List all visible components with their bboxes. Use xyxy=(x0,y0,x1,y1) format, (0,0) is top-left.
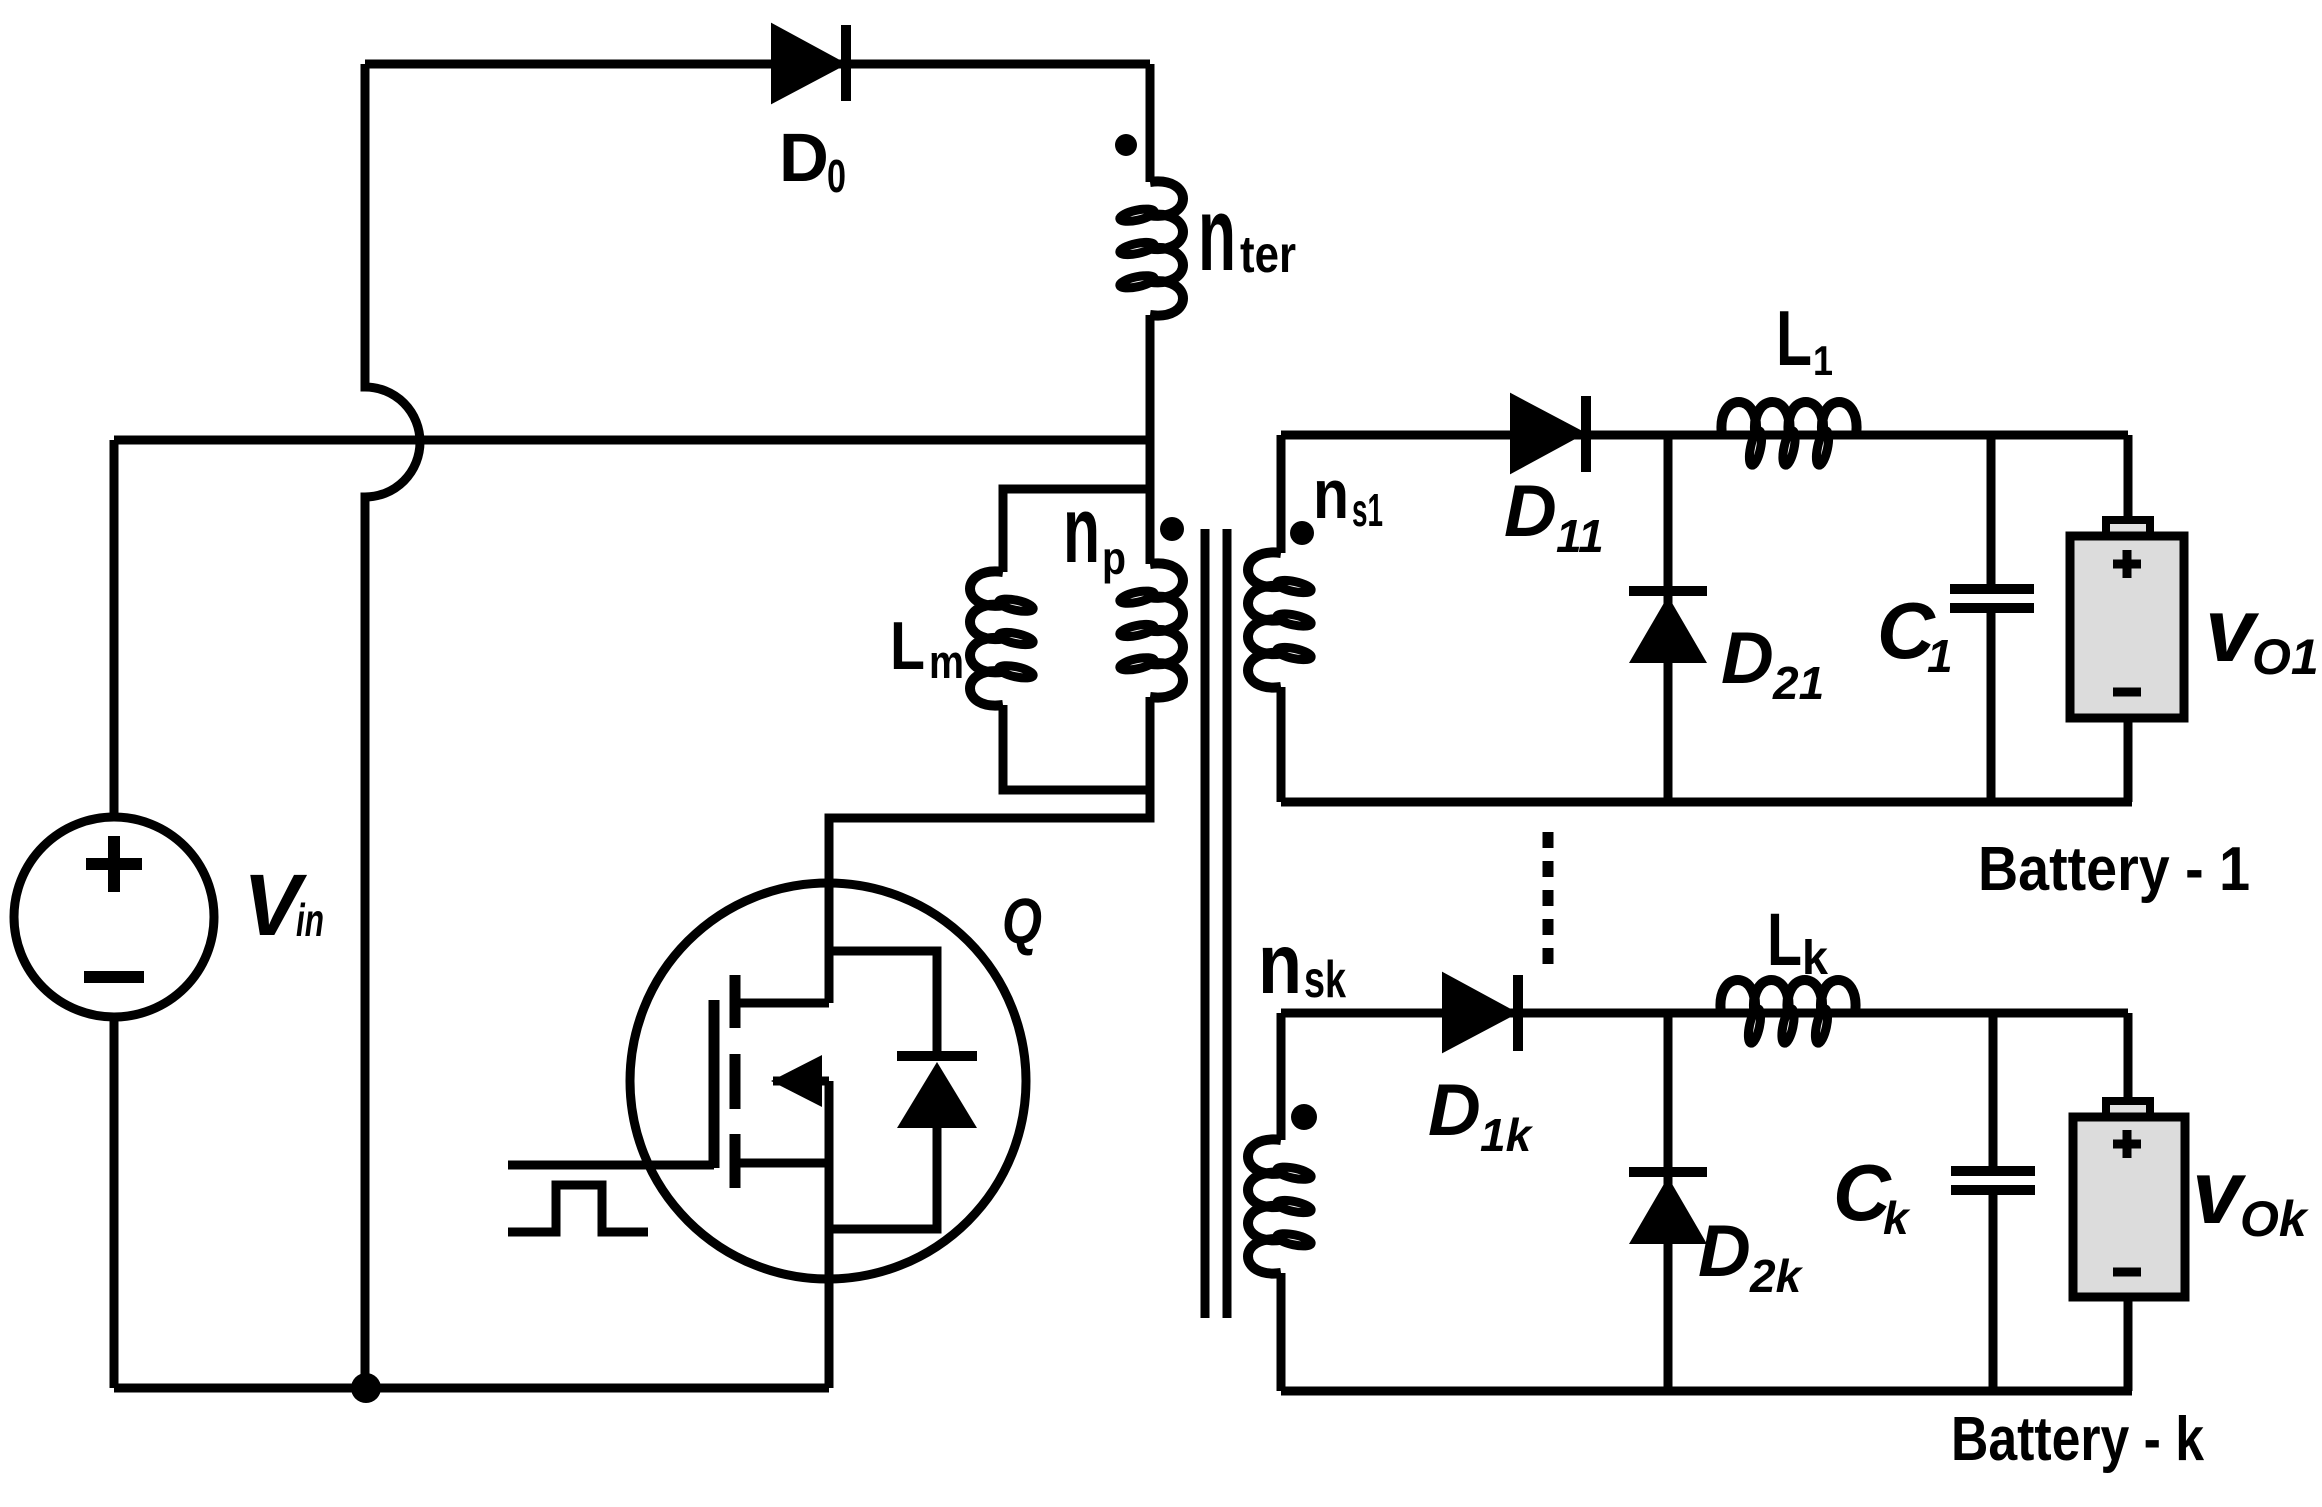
svg-text:L: L xyxy=(1776,294,1812,382)
diode D11 xyxy=(1512,396,1582,471)
diode D2k triangle xyxy=(1629,1177,1707,1244)
svg-text:ter: ter xyxy=(1240,226,1296,284)
battery 1 minus xyxy=(2113,688,2141,697)
battery k terminal nub xyxy=(2106,1101,2150,1119)
svg-text:Battery - 1: Battery - 1 xyxy=(1978,835,2250,904)
svg-text:L: L xyxy=(890,608,925,684)
wire left vertical with hop over main wire xyxy=(365,64,420,1388)
diode D2k cathode bar xyxy=(1629,1167,1707,1177)
diode D2k branch wire xyxy=(1664,1013,1673,1391)
svg-text:sk: sk xyxy=(1304,951,1346,1009)
svg-text:0: 0 xyxy=(827,150,846,202)
battery k body xyxy=(2073,1117,2185,1297)
wire L_m branch xyxy=(1003,489,1150,790)
svg-text:Battery - k: Battery - k xyxy=(1951,1405,2204,1474)
junction dot at bottom rail xyxy=(351,1373,381,1403)
diode D1k xyxy=(1444,975,1514,1050)
diode D21 triangle xyxy=(1629,596,1707,663)
secondary k: top rail xyxy=(1281,1009,2128,1018)
inductor L1 xyxy=(1721,402,1856,435)
svg-text:k: k xyxy=(1802,932,1828,985)
battery 1 body xyxy=(2070,536,2184,718)
wire: top loop from Vin+ to tertiary xyxy=(365,60,1150,69)
inductor L_m xyxy=(970,571,1003,705)
svg-text:D: D xyxy=(1721,618,1774,699)
svg-text:m: m xyxy=(929,635,964,688)
MOSFET source contact xyxy=(734,1159,829,1168)
svg-text:s1: s1 xyxy=(1352,484,1383,536)
svg-text:1: 1 xyxy=(1813,337,1833,384)
secondary 1: top rail xyxy=(1281,431,2128,440)
body diode triangle xyxy=(897,1062,977,1128)
wire primary vertical (tertiary + primary windings) xyxy=(829,64,1150,1003)
diode D21 cathode bar xyxy=(1629,586,1707,596)
MOSFET source/body vertical xyxy=(825,1081,834,1388)
secondary k: left rail xyxy=(1277,1013,1286,1391)
svg-text:n: n xyxy=(1258,917,1302,1012)
winding n_ter xyxy=(1150,181,1183,315)
svg-text:L: L xyxy=(1767,898,1802,981)
body diode branch wires xyxy=(829,951,937,1229)
Vin minus sign xyxy=(84,971,144,983)
svg-text:D: D xyxy=(1428,1070,1481,1151)
transformer core xyxy=(1205,529,1227,1318)
dot n_ter polarity xyxy=(1115,134,1137,156)
Vin plus sign xyxy=(86,836,142,892)
battery k wires xyxy=(2124,1013,2133,1391)
MOSFET Q circle xyxy=(630,883,1026,1279)
inductor Lk xyxy=(1720,980,1855,1013)
battery 1 wires xyxy=(2124,435,2133,802)
svg-text:1k: 1k xyxy=(1480,1109,1534,1161)
svg-text:n: n xyxy=(1198,176,1236,293)
svg-text:D: D xyxy=(779,119,829,196)
diode D0 xyxy=(773,26,843,101)
MOSFET body contact with arrow xyxy=(773,1077,829,1086)
battery k minus xyxy=(2113,1268,2141,1277)
source Vin circle xyxy=(14,817,214,1017)
MOSFET gate bar xyxy=(709,1000,720,1168)
svg-text:k: k xyxy=(1883,1192,1911,1244)
wire left rail / Vin branch xyxy=(110,440,119,1388)
dot n_p polarity xyxy=(1160,517,1184,541)
secondary k: bottom rail xyxy=(1281,1387,2132,1396)
capacitor Ck plates xyxy=(1951,1171,2035,1190)
dashed separator between outputs xyxy=(1543,832,1554,970)
svg-text:D: D xyxy=(1698,1211,1751,1292)
svg-text:11: 11 xyxy=(1556,510,1604,562)
winding n_sk xyxy=(1248,1139,1281,1273)
MOSFET channel dashes xyxy=(730,975,741,1188)
svg-text:Q: Q xyxy=(1002,885,1042,957)
MOSFET drain contact xyxy=(734,999,829,1008)
battery 1 plus xyxy=(2113,550,2141,578)
secondary 1: bottom rail xyxy=(1281,798,2132,807)
svg-text:p: p xyxy=(1102,532,1126,584)
battery k plus xyxy=(2113,1130,2141,1158)
secondary 1: left rail xyxy=(1277,435,1286,802)
MOSFET gate wire xyxy=(508,1161,714,1170)
svg-text:Ok: Ok xyxy=(2240,1191,2309,1247)
winding n_s1 xyxy=(1248,552,1281,687)
svg-text:D: D xyxy=(1504,471,1557,552)
svg-text:O1: O1 xyxy=(2252,629,2319,685)
svg-text:in: in xyxy=(296,894,324,946)
capacitor C1 branch wires xyxy=(1987,435,1996,802)
winding n_p xyxy=(1150,563,1183,697)
capacitor C1 plates xyxy=(1950,589,2034,608)
svg-text:2k: 2k xyxy=(1749,1250,1804,1302)
body diode cathode bar xyxy=(897,1051,977,1061)
svg-text:v: v xyxy=(2192,1143,2247,1243)
svg-text:21: 21 xyxy=(1772,657,1824,709)
diode D21 branch wire xyxy=(1664,435,1673,802)
gate pulse symbol xyxy=(508,1185,648,1232)
svg-text:1: 1 xyxy=(1927,630,1953,682)
dot n_sk polarity xyxy=(1291,1104,1317,1130)
capacitor Ck branch wires xyxy=(1989,1013,1998,1391)
dot n_s1 polarity xyxy=(1290,521,1314,545)
wire main horizontal from Vin top xyxy=(114,436,1150,445)
battery 1 terminal nub xyxy=(2106,520,2150,538)
wire bottom rail xyxy=(114,1384,829,1393)
svg-text:n: n xyxy=(1313,455,1349,533)
